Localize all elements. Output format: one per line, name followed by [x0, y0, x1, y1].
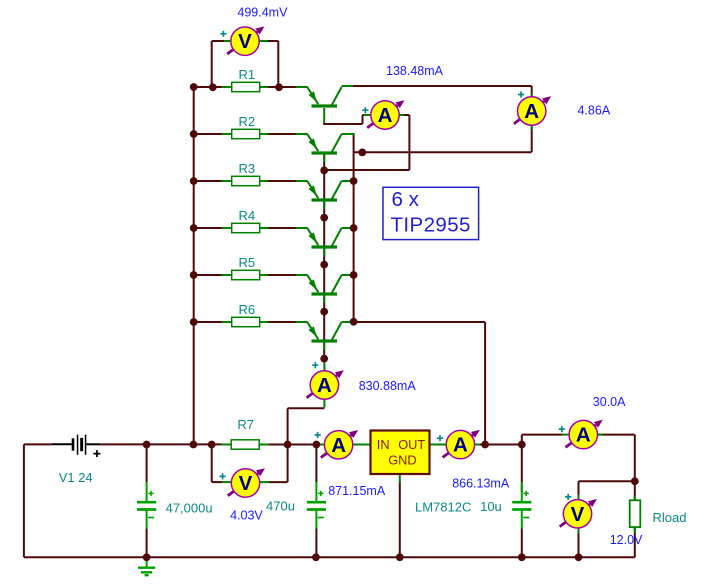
- svg-text:A: A: [576, 424, 591, 447]
- svg-text:R1: R1: [239, 67, 256, 82]
- svg-text:LM7812C: LM7812C: [415, 500, 471, 515]
- svg-text:A: A: [453, 434, 468, 457]
- svg-text:4.86A: 4.86A: [578, 103, 611, 117]
- svg-text:GND: GND: [388, 453, 416, 468]
- svg-text:A: A: [524, 100, 539, 123]
- svg-text:V: V: [571, 503, 585, 526]
- svg-text:A: A: [378, 104, 393, 127]
- svg-text:V: V: [238, 30, 252, 53]
- svg-text:499.4mV: 499.4mV: [237, 6, 288, 20]
- svg-text:R7: R7: [237, 417, 254, 432]
- svg-text:R4: R4: [239, 208, 256, 223]
- svg-text:871.15mA: 871.15mA: [328, 484, 386, 498]
- svg-text:Rload: Rload: [653, 510, 687, 525]
- svg-text:866.13mA: 866.13mA: [452, 476, 510, 490]
- svg-text:V1 24: V1 24: [59, 470, 93, 485]
- svg-text:IN: IN: [377, 437, 390, 452]
- svg-text:6 x: 6 x: [392, 188, 420, 211]
- svg-text:R3: R3: [239, 161, 256, 176]
- svg-text:R5: R5: [239, 255, 256, 270]
- svg-text:30.0A: 30.0A: [593, 395, 626, 409]
- svg-text:138.48mA: 138.48mA: [386, 64, 444, 78]
- svg-text:A: A: [317, 374, 332, 397]
- svg-text:4.03V: 4.03V: [230, 509, 263, 523]
- svg-text:10u: 10u: [480, 499, 502, 514]
- svg-text:V: V: [239, 472, 253, 495]
- svg-text:830.88mA: 830.88mA: [359, 379, 417, 393]
- svg-text:R6: R6: [239, 302, 256, 317]
- svg-text:47,000u: 47,000u: [166, 500, 213, 515]
- svg-text:OUT: OUT: [398, 437, 425, 452]
- svg-text:A: A: [331, 434, 346, 457]
- svg-text:470u: 470u: [266, 499, 295, 514]
- svg-text:12.0V: 12.0V: [610, 533, 643, 547]
- svg-text:TIP2955: TIP2955: [391, 214, 471, 237]
- svg-text:R2: R2: [239, 114, 256, 129]
